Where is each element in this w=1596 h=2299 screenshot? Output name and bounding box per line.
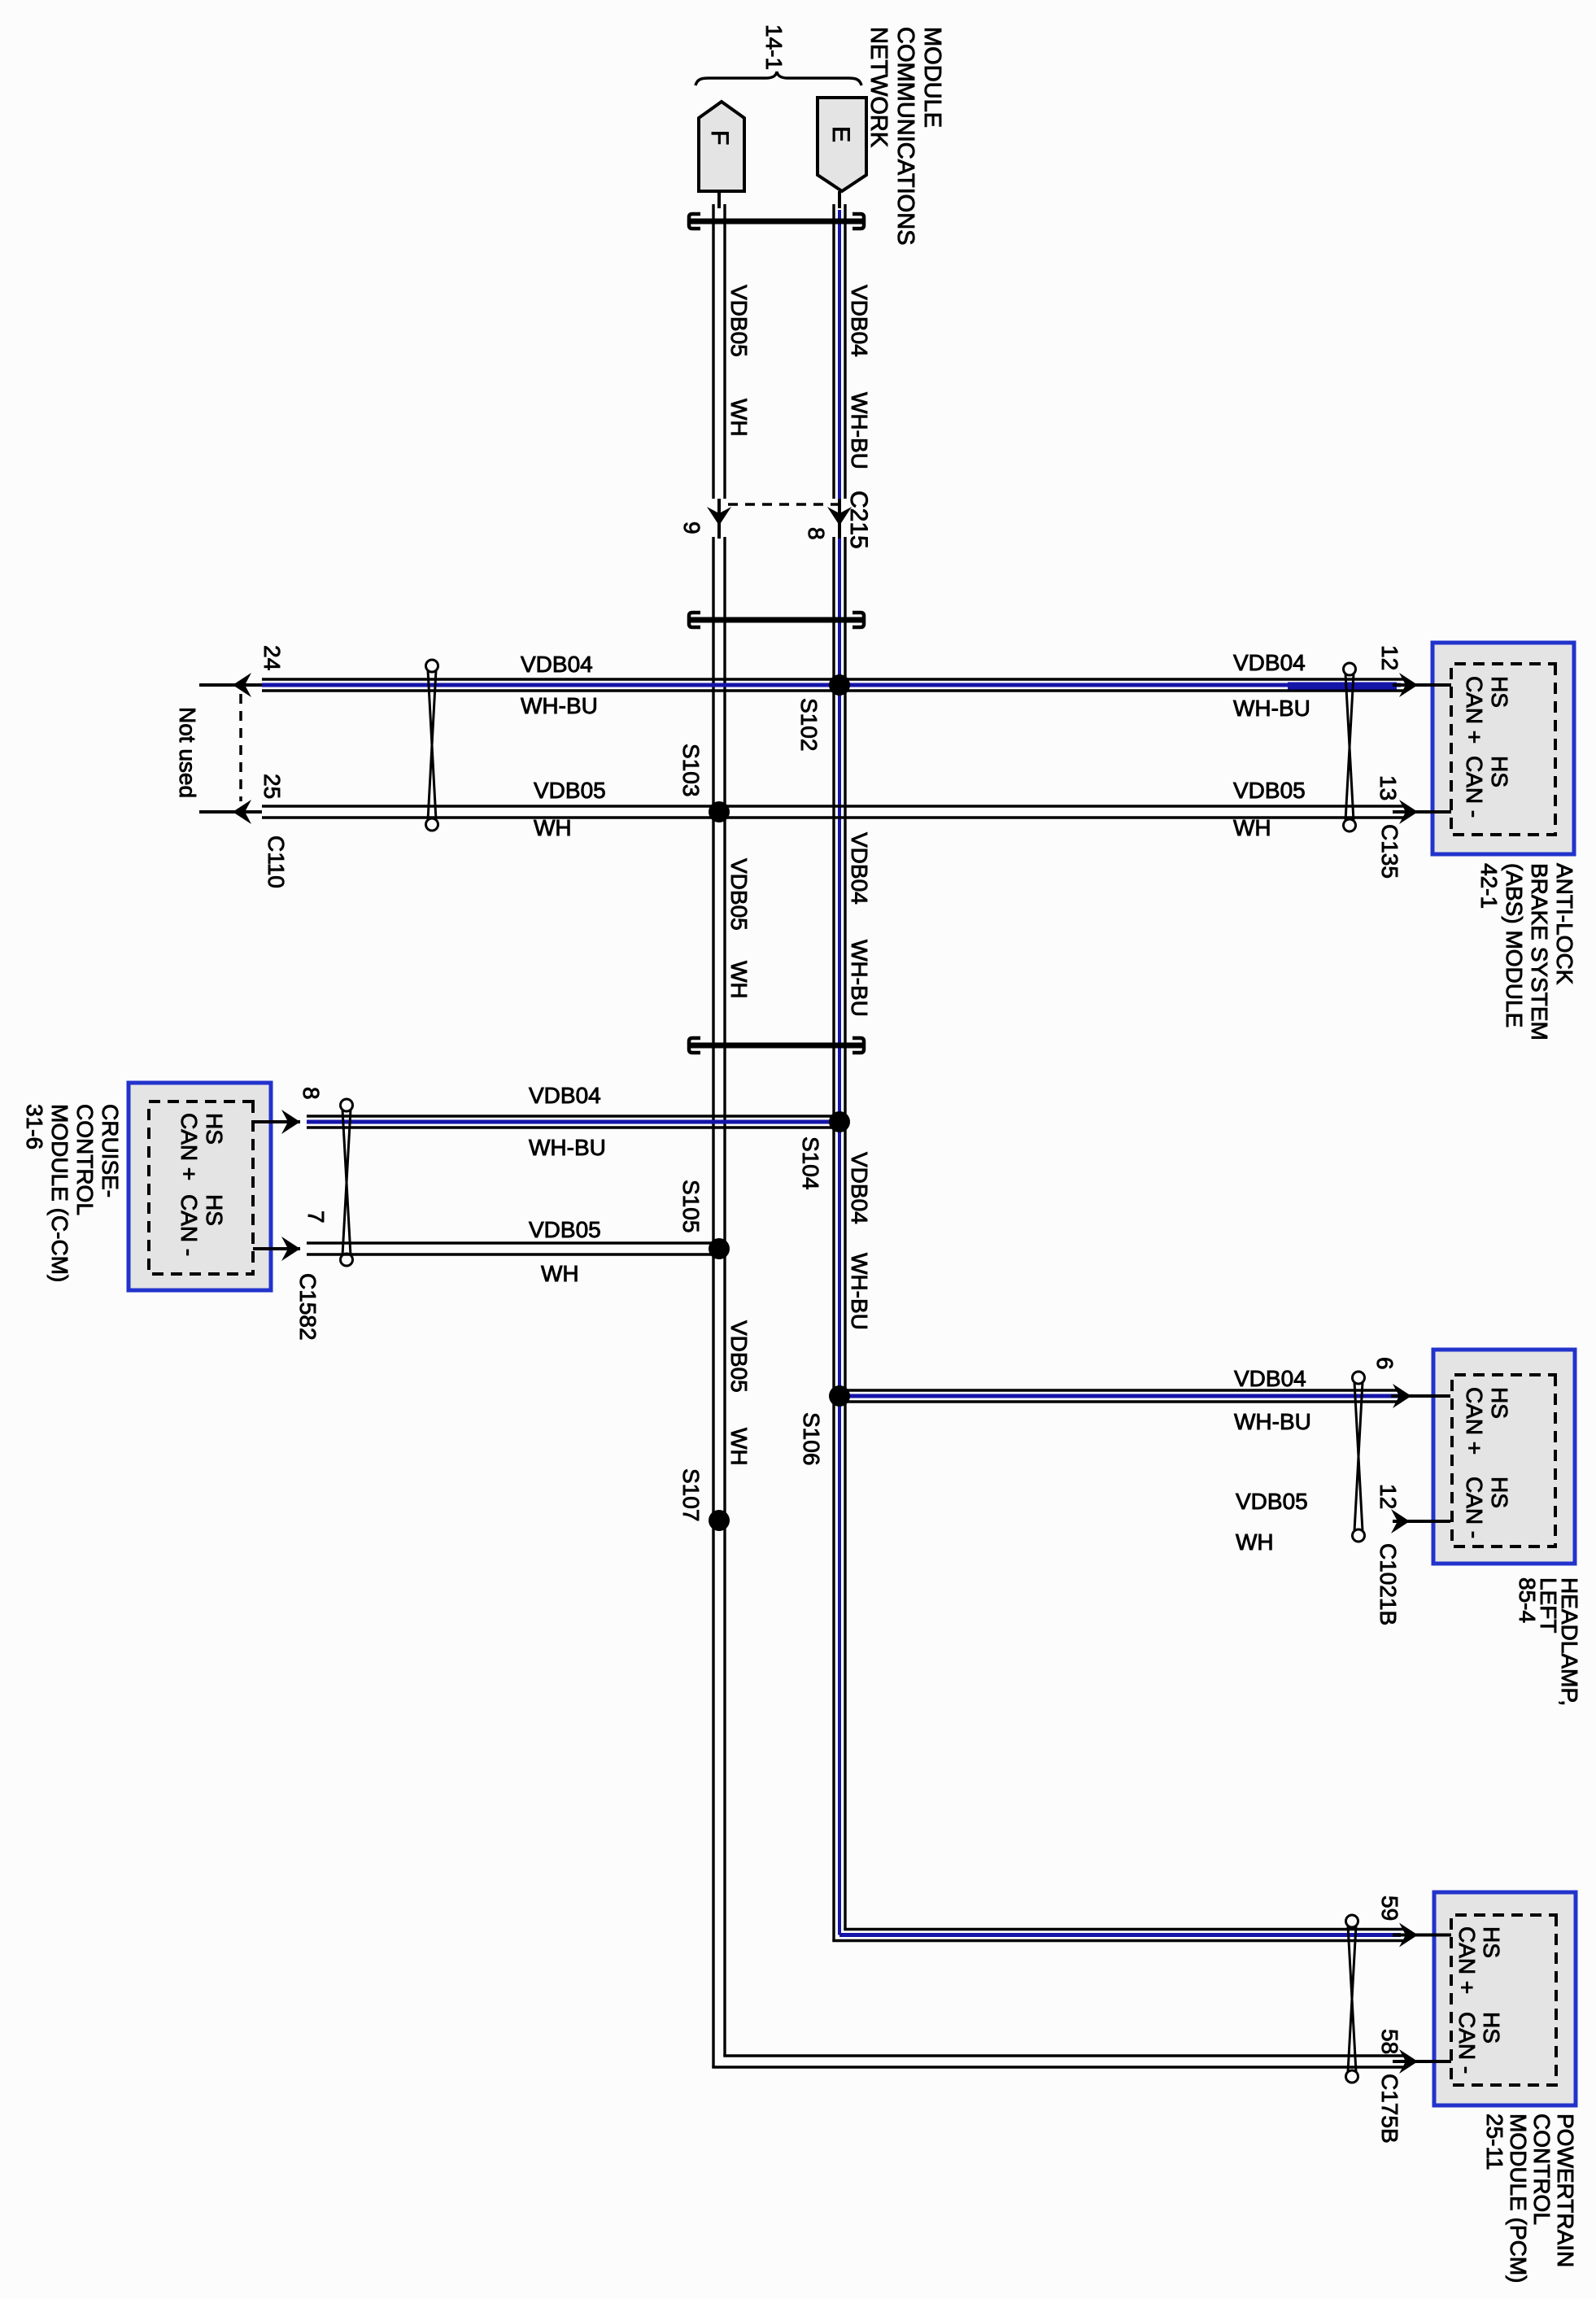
svg-text:12: 12 — [1376, 1484, 1401, 1509]
svg-text:CAN +: CAN + — [177, 1113, 202, 1180]
svg-text:COMMUNICATIONS: COMMUNICATIONS — [892, 27, 918, 246]
svg-text:VDB04: VDB04 — [521, 652, 593, 677]
svg-text:85-4: 85-4 — [1515, 1577, 1540, 1623]
svg-text:WH: WH — [541, 1261, 579, 1286]
svg-text:POWERTRAIN: POWERTRAIN — [1553, 2114, 1578, 2267]
svg-text:6: 6 — [1372, 1357, 1398, 1370]
svg-text:WH: WH — [726, 961, 752, 999]
svg-text:VDB05: VDB05 — [1236, 1489, 1308, 1514]
svg-text:VDB04: VDB04 — [1233, 650, 1306, 675]
svg-text:WH-BU: WH-BU — [847, 392, 872, 469]
svg-text:8: 8 — [804, 527, 829, 540]
svg-text:C1021B: C1021B — [1376, 1543, 1401, 1625]
svg-text:MODULE (PCM): MODULE (PCM) — [1506, 2114, 1531, 2283]
svg-text:S103: S103 — [678, 744, 704, 796]
svg-text:HS: HS — [1487, 1387, 1512, 1419]
svg-text:25-11: 25-11 — [1482, 2114, 1507, 2170]
svg-text:WH-BU: WH-BU — [1233, 696, 1310, 721]
svg-text:13: 13 — [1376, 775, 1401, 801]
svg-text:VDB04: VDB04 — [1234, 1366, 1306, 1391]
svg-text:CAN -: CAN - — [1462, 1477, 1487, 1538]
svg-text:BRAKE SYSTEM: BRAKE SYSTEM — [1527, 863, 1552, 1040]
svg-text:25: 25 — [259, 774, 285, 799]
svg-text:S104: S104 — [798, 1136, 823, 1189]
svg-text:12: 12 — [1377, 645, 1402, 670]
svg-text:F: F — [706, 130, 733, 145]
svg-text:HS: HS — [1479, 2012, 1504, 2044]
svg-text:24: 24 — [259, 645, 285, 670]
svg-text:WH: WH — [726, 1428, 752, 1466]
svg-text:VDB05: VDB05 — [726, 1320, 752, 1393]
svg-text:VDB04: VDB04 — [847, 285, 872, 357]
svg-text:CAN +: CAN + — [1462, 1387, 1487, 1455]
svg-text:S105: S105 — [678, 1180, 704, 1232]
svg-text:31-6: 31-6 — [22, 1104, 47, 1149]
svg-text:Not used: Not used — [175, 707, 200, 798]
svg-text:42-1: 42-1 — [1476, 863, 1502, 909]
svg-text:NETWORK: NETWORK — [866, 27, 892, 148]
svg-text:HS: HS — [202, 1194, 227, 1226]
svg-text:VDB04: VDB04 — [847, 1152, 872, 1224]
svg-text:S102: S102 — [796, 698, 822, 751]
svg-text:C135: C135 — [1377, 824, 1402, 879]
svg-text:7: 7 — [303, 1211, 329, 1224]
svg-text:14-1: 14-1 — [761, 24, 787, 70]
svg-text:C110: C110 — [264, 835, 289, 888]
svg-text:VDB05: VDB05 — [726, 858, 752, 931]
svg-text:S106: S106 — [799, 1412, 824, 1465]
svg-text:9: 9 — [679, 521, 704, 534]
svg-text:(ABS) MODULE: (ABS) MODULE — [1502, 863, 1527, 1027]
svg-text:VDB05: VDB05 — [1233, 778, 1306, 803]
svg-text:WH: WH — [1236, 1529, 1274, 1555]
svg-text:VDB05: VDB05 — [534, 778, 606, 803]
svg-text:CONTROL: CONTROL — [72, 1104, 98, 1215]
svg-text:8: 8 — [299, 1087, 324, 1100]
svg-text:VDB04: VDB04 — [529, 1083, 601, 1108]
svg-text:C215: C215 — [845, 491, 872, 549]
svg-text:CRUISE-: CRUISE- — [98, 1104, 123, 1197]
svg-text:WH-BU: WH-BU — [847, 940, 872, 1017]
svg-text:C175B: C175B — [1377, 2074, 1402, 2144]
svg-text:WH-BU: WH-BU — [521, 693, 598, 718]
svg-text:S107: S107 — [678, 1468, 704, 1521]
svg-text:CAN +: CAN + — [1462, 676, 1487, 744]
svg-text:WH-BU: WH-BU — [1234, 1409, 1311, 1434]
svg-text:HS: HS — [1487, 676, 1512, 708]
svg-text:CAN +: CAN + — [1454, 1926, 1480, 1994]
svg-text:HS: HS — [202, 1113, 227, 1145]
svg-text:MODULE (C-CM): MODULE (C-CM) — [47, 1104, 72, 1282]
svg-text:WH: WH — [534, 815, 572, 840]
svg-text:MODULE: MODULE — [919, 27, 945, 128]
svg-text:E: E — [827, 126, 854, 142]
svg-text:WH: WH — [726, 399, 752, 437]
svg-text:CAN -: CAN - — [1454, 2012, 1480, 2074]
svg-text:59: 59 — [1377, 1895, 1402, 1921]
svg-text:CONTROL: CONTROL — [1529, 2114, 1555, 2225]
svg-text:HS: HS — [1479, 1926, 1504, 1958]
svg-text:HS: HS — [1487, 1477, 1512, 1508]
svg-text:58: 58 — [1377, 2029, 1402, 2054]
svg-text:WH-BU: WH-BU — [847, 1253, 872, 1330]
svg-text:ANTI-LOCK: ANTI-LOCK — [1552, 863, 1577, 985]
svg-text:VDB05: VDB05 — [726, 285, 752, 357]
svg-text:HS: HS — [1487, 756, 1512, 787]
svg-text:CAN -: CAN - — [177, 1194, 202, 1256]
svg-text:WH-BU: WH-BU — [529, 1135, 606, 1160]
svg-text:C1582: C1582 — [295, 1273, 321, 1341]
svg-text:VDB05: VDB05 — [529, 1217, 601, 1242]
svg-text:WH: WH — [1233, 815, 1271, 840]
svg-text:VDB04: VDB04 — [847, 832, 872, 905]
svg-text:CAN -: CAN - — [1462, 756, 1487, 818]
